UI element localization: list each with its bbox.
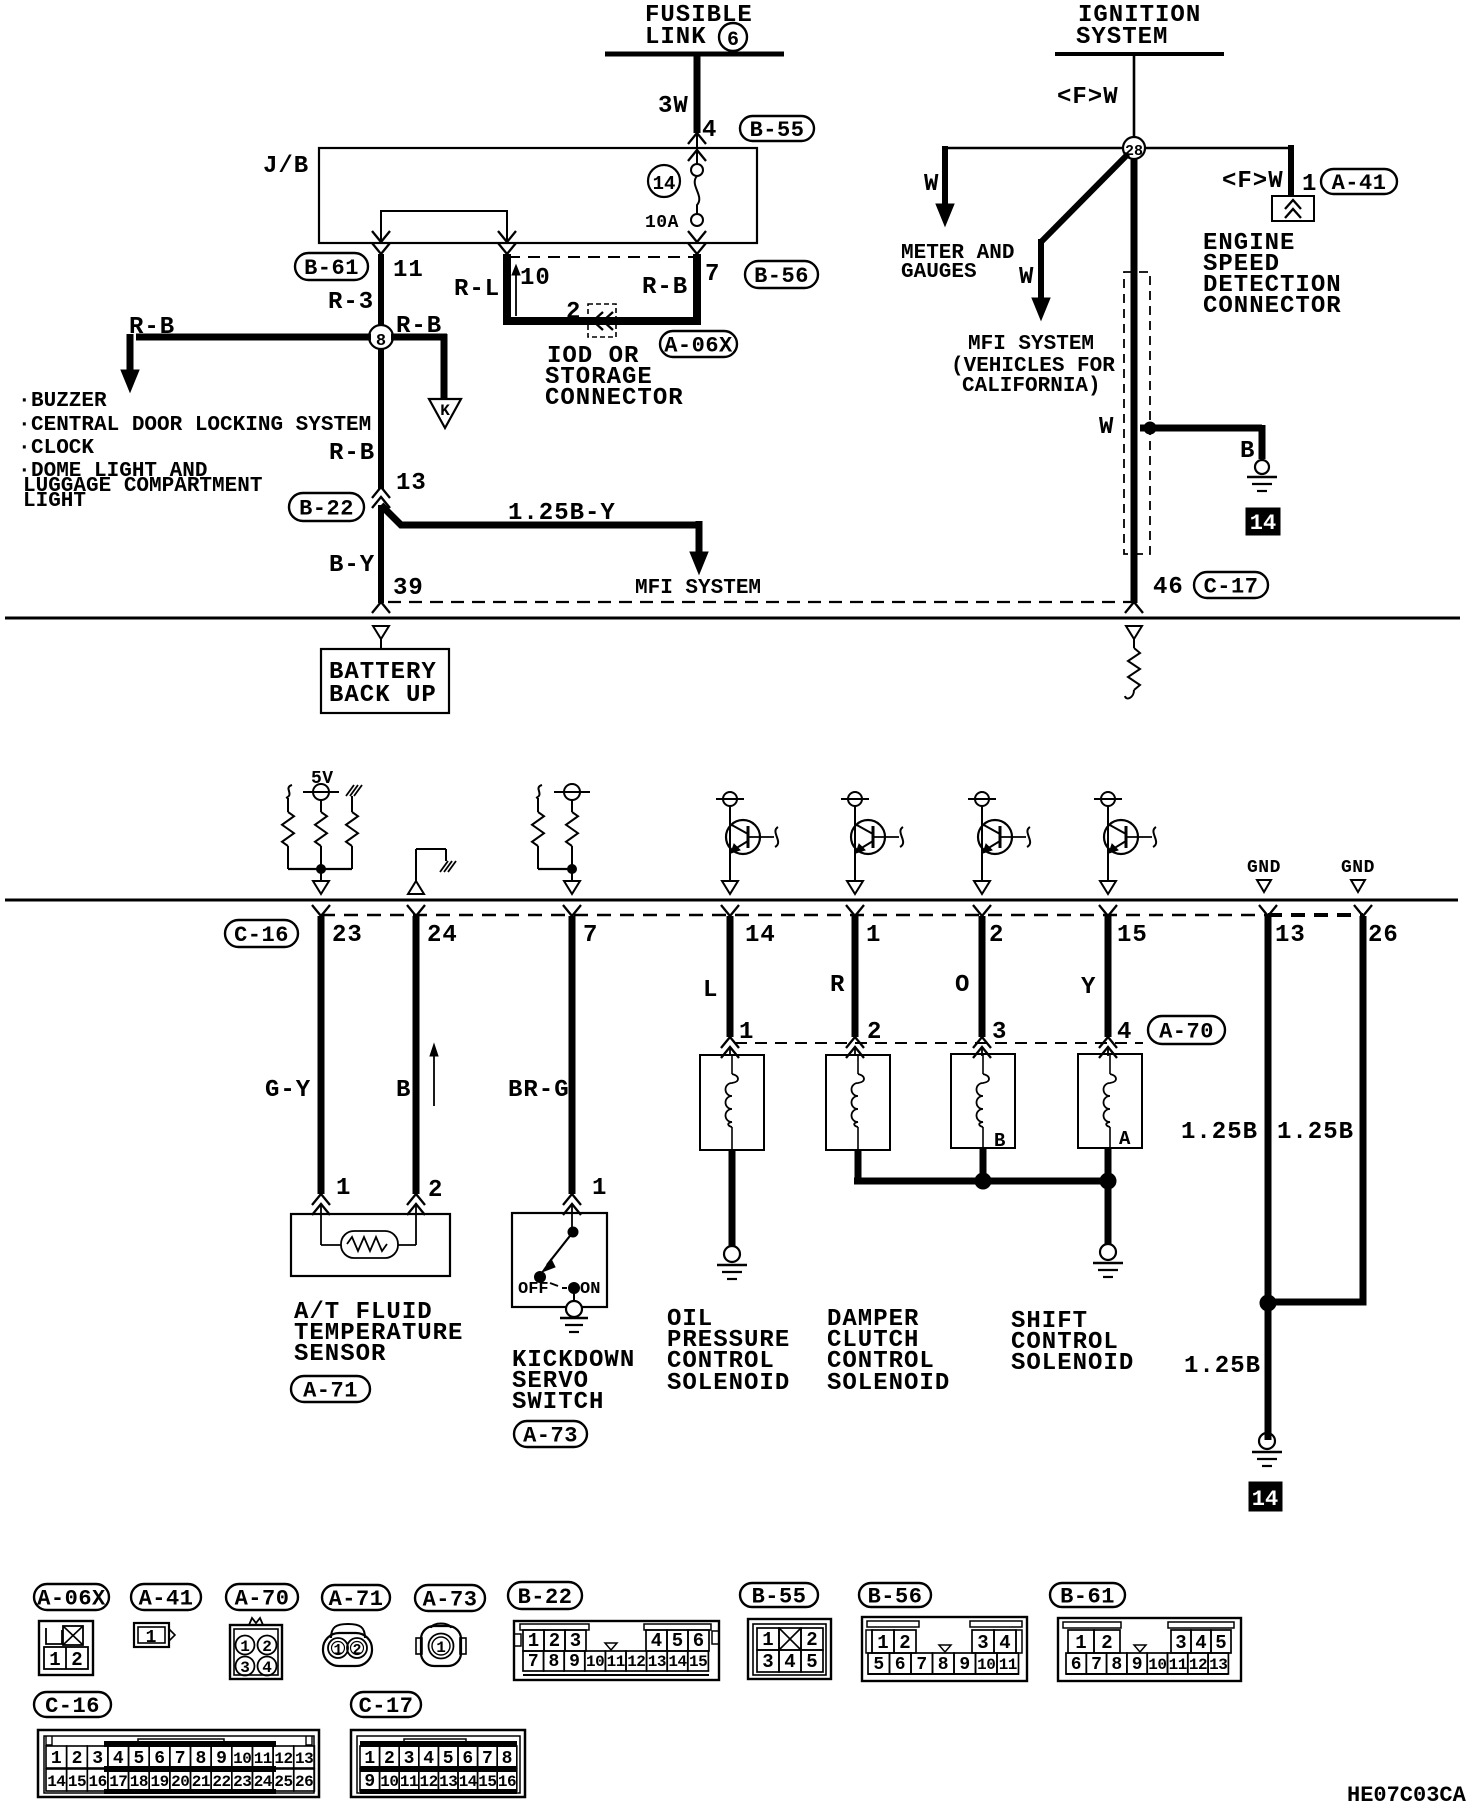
connector tag B-56 bottom [859, 1583, 931, 1607]
connector chevron pin 2 C-16 [973, 905, 991, 916]
svg-text:R: R [830, 972, 845, 999]
connector tag A-71 [291, 1376, 370, 1402]
junction block J/B box [319, 148, 757, 243]
connector chevrons pin 13 B-22 [372, 487, 390, 498]
connector tag B-56 [745, 261, 818, 288]
svg-text:9: 9 [569, 1652, 580, 1672]
svg-text:A-70: A-70 [1159, 1020, 1214, 1045]
svg-text:R-L: R-L [454, 276, 500, 303]
svg-text:5: 5 [1215, 1632, 1226, 1654]
wire G-Y pin 23 [318, 916, 325, 1194]
svg-text:23: 23 [332, 922, 363, 949]
connector tag C-16 [225, 920, 298, 947]
node 28 junction [1123, 137, 1145, 159]
wire pin 10 drop [503, 254, 511, 317]
svg-text:5: 5 [873, 1655, 884, 1675]
svg-text:3: 3 [762, 1651, 773, 1673]
svg-text:A-73: A-73 [423, 1588, 478, 1613]
connector chevrons kickdown pin 1 [563, 1194, 581, 1205]
svg-text:20: 20 [171, 1773, 189, 1791]
dashed connector line A-70 [735, 1042, 1143, 1044]
connector pinout C-17 [351, 1730, 525, 1797]
dashed connector line C-16 [321, 914, 1268, 916]
svg-text:B-56: B-56 [754, 264, 809, 289]
svg-text:3: 3 [92, 1749, 103, 1769]
svg-text:A-71: A-71 [329, 1587, 384, 1612]
connector pinout A-70 [230, 1625, 282, 1679]
wire fusible link to J/B pin 4 [694, 56, 701, 133]
res group 2 bus [537, 846, 539, 869]
connector tag B-61 bottom [1050, 1583, 1125, 1607]
fuse 14 10A inside J/B [691, 164, 703, 176]
dashed box california option [1124, 272, 1150, 554]
wire L pin 14 [727, 916, 734, 1037]
svg-text:SOLENOID: SOLENOID [667, 1370, 790, 1397]
wire R-B to K [391, 334, 447, 341]
junction dot 1.25B [1260, 1295, 1276, 1311]
svg-text:24: 24 [427, 922, 458, 949]
svg-text:12: 12 [274, 1750, 292, 1768]
switch arm [568, 1227, 578, 1237]
connector pinout B-61 [1058, 1618, 1241, 1681]
svg-text:<F>W: <F>W [1222, 168, 1284, 195]
wire B-Y pin13 to pin 39 [378, 505, 384, 603]
svg-text:14: 14 [668, 1653, 687, 1671]
svg-text:B-61: B-61 [304, 256, 359, 281]
svg-text:4: 4 [262, 1659, 272, 1677]
wire ignition main down to pin 46 [1131, 159, 1138, 603]
connector tag B-61 [295, 253, 368, 280]
svg-text:11: 11 [999, 1656, 1017, 1674]
svg-text:1: 1 [739, 1019, 754, 1046]
connector tag A-71 bottom [322, 1585, 390, 1610]
svg-text:12: 12 [627, 1653, 645, 1671]
svg-text:J/B: J/B [263, 153, 309, 180]
svg-text:G-Y: G-Y [265, 1077, 311, 1104]
svg-text:10: 10 [977, 1656, 995, 1674]
svg-text:23: 23 [233, 1773, 251, 1791]
svg-text:4: 4 [1117, 1019, 1132, 1046]
ground shift solenoid [1100, 1244, 1116, 1260]
connector chevrons pin 4 [688, 133, 706, 144]
svg-text:A-71: A-71 [303, 1379, 358, 1404]
svg-text:A-06X: A-06X [37, 1587, 106, 1612]
svg-text:7: 7 [583, 922, 598, 949]
svg-text:9: 9 [1132, 1655, 1143, 1675]
transistor Q2 pin 1 [848, 792, 862, 806]
wire O pin 2 [979, 916, 986, 1037]
svg-text:K: K [440, 402, 450, 420]
svg-text:A-73: A-73 [523, 1424, 578, 1449]
resistor R1c [346, 812, 358, 846]
svg-text:8: 8 [502, 1749, 513, 1769]
wire BR-G pin 7 [569, 916, 576, 1194]
wire to meter and gauges [945, 147, 1123, 150]
wire R-B to buzzer systems [136, 334, 371, 341]
svg-text:4: 4 [702, 117, 717, 144]
svg-text:11: 11 [400, 1773, 418, 1791]
connector chevrons pin 2 A-70 [846, 1037, 864, 1048]
svg-text:C-16: C-16 [45, 1694, 100, 1719]
wire R pin 1 [852, 916, 859, 1037]
svg-text:GND: GND [1247, 858, 1281, 878]
connector pinout A-41 [134, 1623, 169, 1647]
svg-text:6: 6 [1071, 1655, 1082, 1675]
svg-text:12: 12 [419, 1773, 437, 1791]
svg-text:LIGHT: LIGHT [23, 490, 86, 513]
wire to engine speed connector [1145, 147, 1291, 150]
svg-text:1: 1 [51, 1749, 62, 1769]
arrow MFI california [1032, 298, 1050, 320]
res group 1 bus [287, 846, 289, 869]
svg-text:GAUGES: GAUGES [901, 261, 977, 284]
arrow MFI system [690, 552, 708, 574]
battery backup box [321, 649, 449, 713]
svg-text:BUZZER: BUZZER [31, 390, 107, 413]
svg-text:5: 5 [443, 1749, 454, 1769]
svg-text:7: 7 [175, 1749, 186, 1769]
svg-text:4: 4 [423, 1749, 434, 1769]
svg-text:6: 6 [462, 1749, 473, 1769]
page divider line 1 [5, 617, 1460, 620]
svg-text:B-61: B-61 [1060, 1585, 1115, 1610]
svg-text:15: 15 [1117, 922, 1148, 949]
svg-text:1: 1 [333, 1642, 342, 1659]
resistor R2a [532, 812, 544, 846]
connector chevron pin 1 C-16 [846, 905, 864, 916]
svg-text:26: 26 [295, 1773, 313, 1791]
connector tag A-70 bottom [226, 1584, 298, 1610]
signal squiggle res group 2 [536, 785, 542, 798]
svg-text:C-16: C-16 [234, 923, 289, 948]
svg-text:A-06X: A-06X [664, 334, 733, 359]
connector K triangle [429, 399, 461, 428]
arrow to buzzer list [121, 370, 139, 392]
wire 1.25B pin 26 [1272, 916, 1363, 1302]
AT fluid temperature sensor box [291, 1214, 450, 1276]
solenoid coil B [951, 1054, 1015, 1148]
gnd triangle 13 [1257, 880, 1271, 892]
svg-text:1: 1 [877, 1632, 888, 1654]
svg-text:16: 16 [498, 1773, 516, 1791]
svg-text:CLOCK: CLOCK [31, 437, 94, 460]
svg-text:46: 46 [1153, 574, 1184, 601]
svg-text:A: A [1119, 1128, 1131, 1150]
svg-text:2: 2 [549, 1630, 560, 1652]
connector pinout A-73 [431, 1624, 451, 1629]
svg-text:14: 14 [459, 1773, 478, 1791]
connector tag B-22 bottom [508, 1582, 582, 1609]
wire oil solenoid to ground [729, 1150, 736, 1246]
resistor R1b [320, 800, 322, 812]
svg-text:10: 10 [233, 1750, 251, 1768]
svg-text:8: 8 [548, 1652, 559, 1672]
connector chevron pin 39 [372, 602, 390, 613]
svg-text:C-17: C-17 [1204, 575, 1259, 600]
chassis hatch res group 1 [346, 785, 354, 796]
svg-text:W: W [1099, 414, 1114, 441]
svg-text:2: 2 [428, 1177, 443, 1204]
svg-text:1: 1 [1302, 171, 1317, 198]
svg-text:BR-G: BR-G [508, 1077, 570, 1104]
svg-text:19: 19 [150, 1773, 168, 1791]
wire solenoid common bus [854, 1178, 1108, 1185]
kickdown ground [573, 1288, 575, 1301]
connector chevron pin 46 [1125, 602, 1143, 613]
svg-text:5: 5 [672, 1630, 683, 1652]
connector pinout A-71 [331, 1624, 365, 1638]
svg-text:13: 13 [1209, 1656, 1227, 1674]
svg-text:A-41: A-41 [1332, 171, 1387, 196]
svg-text:HE07C03CA: HE07C03CA [1347, 1783, 1467, 1806]
connector tag A-06X bottom [34, 1584, 109, 1610]
resistor ignition feed [1128, 648, 1140, 690]
svg-text:8: 8 [938, 1655, 949, 1675]
connector chevrons pin 7 [688, 231, 706, 242]
connector pinout C-16 [38, 1730, 319, 1797]
svg-text:2: 2 [352, 1642, 361, 1659]
connector chevron pin 15 C-16 [1099, 905, 1117, 916]
svg-text:16: 16 [88, 1773, 106, 1791]
svg-text:1.25B: 1.25B [1277, 1119, 1354, 1146]
ground oil solenoid [724, 1246, 740, 1262]
svg-text:3: 3 [977, 1632, 988, 1654]
ground ref 14 black box [1246, 508, 1280, 535]
ecu arrow pin 23 [313, 881, 329, 894]
node 8 junction circle [378, 329, 384, 349]
connector chevrons sensor pin 1 [312, 1194, 330, 1205]
arrow meter gauges [936, 204, 954, 226]
connector tag A-73 [514, 1421, 587, 1447]
svg-text:14: 14 [1250, 511, 1276, 536]
svg-text:17: 17 [109, 1773, 127, 1791]
svg-text:1: 1 [336, 1175, 351, 1202]
gnd triangle 26 [1351, 880, 1365, 892]
transistor Q3 pin 2 [975, 792, 989, 806]
svg-text:3: 3 [992, 1019, 1007, 1046]
svg-text:11: 11 [254, 1750, 272, 1768]
ground 1.25B bus [1259, 1433, 1275, 1449]
wire branch 1.25B-Y to MFI [381, 505, 699, 525]
wire Y pin 15 [1105, 916, 1112, 1037]
connector tag A-06X [660, 331, 737, 357]
solenoid coil oil pressure [700, 1055, 764, 1150]
svg-text:CENTRAL DOOR LOCKING SYSTEM: CENTRAL DOOR LOCKING SYSTEM [31, 414, 371, 437]
svg-text:13: 13 [1275, 922, 1306, 949]
connector chevron pin 26 C-16 [1354, 905, 1372, 916]
svg-text:24: 24 [254, 1773, 273, 1791]
svg-text:2: 2 [806, 1629, 817, 1651]
svg-text:CONNECTOR: CONNECTOR [545, 385, 684, 412]
svg-text:R-3: R-3 [328, 289, 374, 316]
svg-text:O: O [955, 972, 970, 999]
wire IOD bottom run [503, 317, 701, 325]
svg-text:2: 2 [262, 1638, 272, 1656]
connector chevrons sensor pin 2 [407, 1194, 425, 1205]
ecu arrow pin 7 [564, 881, 580, 894]
svg-text:15: 15 [478, 1773, 496, 1791]
svg-text:C-17: C-17 [359, 1694, 414, 1719]
svg-text:SWITCH: SWITCH [512, 1389, 604, 1416]
svg-text:9: 9 [216, 1749, 227, 1769]
svg-text:4: 4 [113, 1749, 124, 1769]
svg-text:5: 5 [133, 1749, 144, 1769]
svg-text:OFF: OFF [518, 1280, 549, 1299]
svg-text:9: 9 [959, 1655, 970, 1675]
kickdown servo switch box [512, 1213, 607, 1307]
solenoid coil damper clutch [826, 1055, 890, 1150]
connector tag B-55 [740, 116, 814, 141]
svg-text:2: 2 [384, 1749, 395, 1769]
svg-text:1: 1 [1075, 1632, 1086, 1654]
connector pinout B-22 [514, 1621, 719, 1680]
dashed ecu boundary line top [388, 601, 1134, 603]
wire shift solenoid to ground [1105, 1181, 1112, 1244]
svg-text:6: 6 [727, 29, 739, 52]
svg-text:1: 1 [364, 1749, 375, 1769]
connector chevron pin 24 C-16 [407, 905, 425, 916]
svg-text:6: 6 [693, 1630, 704, 1652]
page divider line 2 [5, 899, 1458, 902]
connector chevron pin 7 C-16 [563, 905, 581, 916]
svg-text:3: 3 [570, 1630, 581, 1652]
svg-text:CONNECTOR: CONNECTOR [1203, 293, 1342, 320]
svg-text:2: 2 [989, 922, 1004, 949]
connector chevrons pin 1 A-70 [721, 1037, 739, 1048]
junction dot shift A [1100, 1173, 1116, 1189]
svg-text:7: 7 [1091, 1655, 1102, 1675]
svg-text:10: 10 [520, 265, 551, 292]
svg-text:·: · [18, 414, 31, 437]
signal squiggle res group 1 [286, 785, 292, 798]
svg-text:18: 18 [130, 1773, 148, 1791]
svg-text:13: 13 [396, 470, 427, 497]
svg-text:5: 5 [806, 1651, 817, 1673]
wire B pin 24 [413, 916, 420, 1194]
resistor R2b [571, 800, 573, 812]
svg-text:21: 21 [192, 1773, 210, 1791]
connector pinout B-56 [862, 1617, 1027, 1681]
wire ignition drop [1133, 56, 1136, 139]
connector tag B-22 [289, 493, 364, 521]
svg-text:B-56: B-56 [868, 1585, 923, 1610]
svg-text:B-55: B-55 [752, 1585, 807, 1610]
svg-text:1: 1 [762, 1629, 773, 1651]
svg-text:MFI SYSTEM: MFI SYSTEM [635, 577, 761, 600]
svg-text:SENSOR: SENSOR [294, 1341, 386, 1368]
engine speed detection connector symbol [1272, 196, 1314, 221]
svg-text:B: B [1240, 438, 1255, 465]
svg-text:8: 8 [376, 332, 386, 351]
connector tag C-17 top [1194, 572, 1268, 598]
svg-text:B-22: B-22 [299, 497, 354, 522]
svg-text:14: 14 [653, 173, 676, 195]
dashed harness line above IOD [508, 256, 696, 258]
connector pinout B-55 [748, 1619, 831, 1679]
thermistor element [320, 1214, 322, 1245]
svg-text:39: 39 [393, 575, 424, 602]
svg-text:6: 6 [154, 1749, 165, 1769]
connector chevrons pin 10 [498, 231, 516, 242]
wire damper solenoid down [855, 1150, 862, 1181]
connector tag A-41 [1321, 169, 1397, 194]
svg-text:MFI SYSTEM: MFI SYSTEM [968, 333, 1094, 356]
svg-text:3: 3 [404, 1749, 415, 1769]
svg-text:2: 2 [566, 299, 581, 326]
connector chevron pin 23 C-16 [312, 905, 330, 916]
wire R-3 from pin 11 to node 8 [378, 254, 384, 329]
svg-text:9: 9 [364, 1772, 375, 1792]
svg-text:12: 12 [1189, 1656, 1207, 1674]
svg-text:1.25B: 1.25B [1184, 1353, 1261, 1380]
ignition bus bar [1055, 52, 1224, 56]
svg-text:A-41: A-41 [139, 1587, 194, 1612]
svg-text:1: 1 [866, 922, 881, 949]
svg-text:3W: 3W [658, 93, 689, 120]
resistor R1a [282, 812, 294, 846]
ignition feed Y symbol [1126, 626, 1142, 639]
battery backup feed Y symbol [373, 626, 389, 639]
ground engine speed [1255, 460, 1269, 474]
connector tag C-17 bottom [351, 1692, 421, 1717]
connector pinout A-06X [39, 1621, 93, 1675]
svg-text:1: 1 [240, 1638, 250, 1656]
svg-text:7: 7 [482, 1749, 493, 1769]
svg-text:2: 2 [71, 1649, 82, 1671]
ecu link pin 24 [408, 881, 424, 894]
svg-text:15: 15 [68, 1773, 86, 1791]
transistor Q4 pin 15 [1101, 792, 1115, 806]
connector chevron pin 14 C-16 [721, 905, 739, 916]
svg-text:3: 3 [240, 1659, 250, 1677]
wire 1.25B pin 13 [1265, 916, 1272, 1440]
svg-text:SOLENOID: SOLENOID [1011, 1350, 1134, 1377]
connector tag A-73 bottom [415, 1585, 485, 1611]
junction dot damper B [975, 1173, 991, 1189]
svg-text:2: 2 [867, 1019, 882, 1046]
svg-text:3: 3 [1175, 1632, 1186, 1654]
svg-text:4: 4 [999, 1632, 1010, 1654]
svg-text:13: 13 [439, 1773, 457, 1791]
svg-text:14: 14 [745, 922, 776, 949]
svg-text:W: W [1019, 264, 1034, 291]
svg-text:7: 7 [705, 261, 720, 288]
svg-text:Y: Y [1081, 974, 1096, 1001]
svg-text:10A: 10A [645, 213, 679, 233]
svg-text:25: 25 [274, 1773, 292, 1791]
svg-text:15: 15 [689, 1653, 707, 1671]
svg-text:13: 13 [295, 1750, 313, 1768]
transistor Q1 pin 14 [723, 792, 737, 806]
signal arrow pin 10 [515, 272, 517, 316]
connector chevrons pin 4 A-70 [1099, 1037, 1117, 1048]
svg-text:2: 2 [1101, 1632, 1112, 1654]
svg-text:2: 2 [72, 1749, 83, 1769]
wire pin 7 drop [693, 254, 701, 317]
signal arrow B wire [433, 1052, 435, 1106]
svg-text:13: 13 [648, 1653, 666, 1671]
svg-text:10: 10 [380, 1773, 398, 1791]
svg-text:BACK UP: BACK UP [329, 682, 437, 709]
wire R-B node8 to pin 13 [378, 349, 384, 489]
svg-text:1.25B-Y: 1.25B-Y [508, 500, 616, 527]
connector tag C-16 bottom [34, 1692, 111, 1717]
svg-text:GND: GND [1341, 858, 1375, 878]
J/B internal bus [381, 211, 507, 243]
svg-text:B-Y: B-Y [329, 552, 375, 579]
svg-text:14: 14 [47, 1773, 66, 1791]
svg-text:<F>W: <F>W [1057, 84, 1119, 111]
